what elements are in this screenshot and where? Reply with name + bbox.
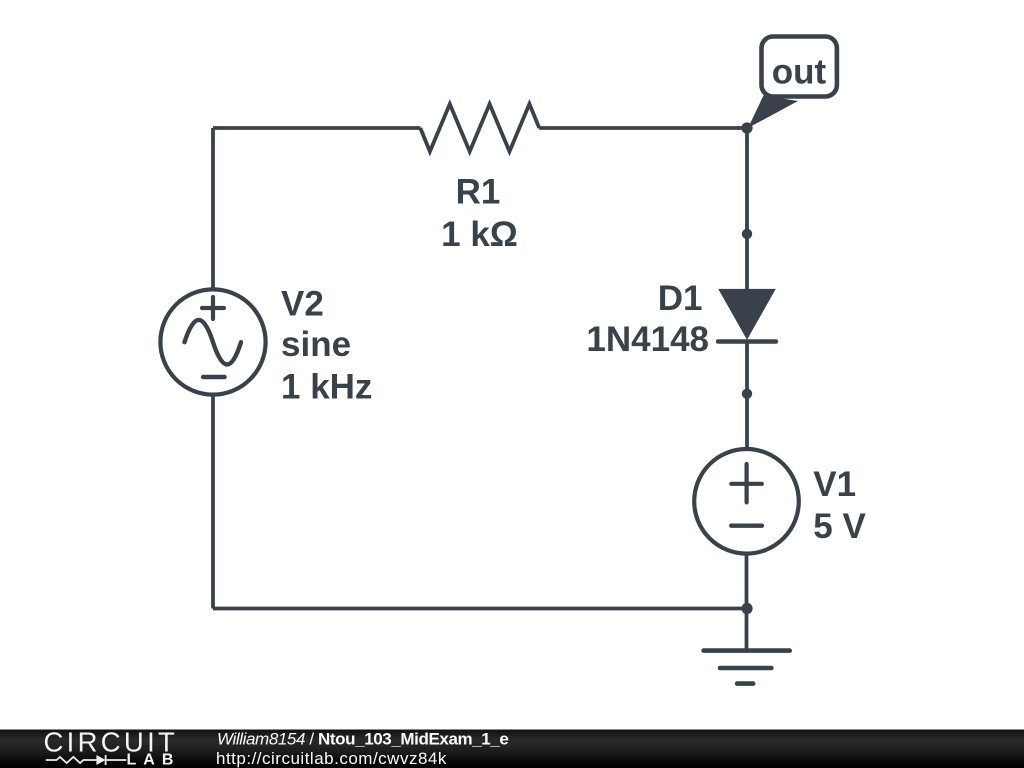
svg-text:R1: R1 (456, 173, 501, 212)
wire dot to V1 top (745, 394, 749, 449)
voltage source V1 circle (694, 449, 799, 554)
wire top-left horizontal (V2 to R1) (213, 126, 420, 130)
V1 plus sign (731, 464, 762, 502)
wire bottom horizontal (213, 607, 747, 611)
ground bar 2 (720, 666, 771, 671)
terminal dot below diode (742, 389, 752, 399)
resistor R1 (420, 104, 539, 152)
junction node out (741, 122, 752, 133)
wire left vertical top (corner to V2) (211, 128, 215, 290)
svg-text:1 kΩ: 1 kΩ (441, 215, 518, 254)
net flag out pointer (748, 96, 798, 129)
svg-text:1 kHz: 1 kHz (281, 367, 372, 406)
svg-text:V1: V1 (813, 465, 856, 504)
ground bar 3 (737, 681, 753, 686)
svg-text:D1: D1 (658, 279, 703, 318)
diode D1 cathode bar (718, 339, 776, 344)
V1 minus sign (731, 524, 762, 528)
terminal dot above diode (742, 229, 752, 239)
svg-text:1N4148: 1N4148 (586, 320, 709, 359)
svg-text:William8154 / Ntou_103_MidExam: William8154 / Ntou_103_MidExam_1_e (217, 730, 508, 749)
ground bar 1 (704, 648, 790, 653)
wire V1 bottom to ground junction (745, 554, 749, 609)
wire dot to diode anode (745, 234, 749, 290)
net flag out box (762, 37, 837, 97)
voltage source V2 circle (160, 289, 265, 394)
diode D1 triangle (anode) (718, 289, 776, 340)
svg-text:out: out (772, 53, 827, 92)
V2 minus sign (203, 375, 225, 379)
svg-text:http://circuitlab.com/cwvz84k: http://circuitlab.com/cwvz84k (216, 749, 447, 768)
wire R1 to node out (539, 126, 747, 130)
svg-text:sine: sine (281, 325, 351, 364)
wire diode cathode to dot (745, 342, 749, 394)
V2 plus sign (202, 297, 224, 319)
ground stub (745, 609, 749, 651)
wire out node to diode (upper) (745, 128, 749, 234)
wire left vertical bottom (V2 to corner) (211, 395, 215, 609)
svg-text:5 V: 5 V (813, 507, 866, 546)
CircuitLab logo resistor-diode squiggle (46, 757, 97, 763)
svg-text:LAB: LAB (127, 751, 181, 768)
svg-text:V2: V2 (281, 285, 324, 324)
V2 sine wave (185, 320, 242, 365)
junction bottom node (741, 603, 752, 614)
footer bar (0, 730, 1024, 768)
